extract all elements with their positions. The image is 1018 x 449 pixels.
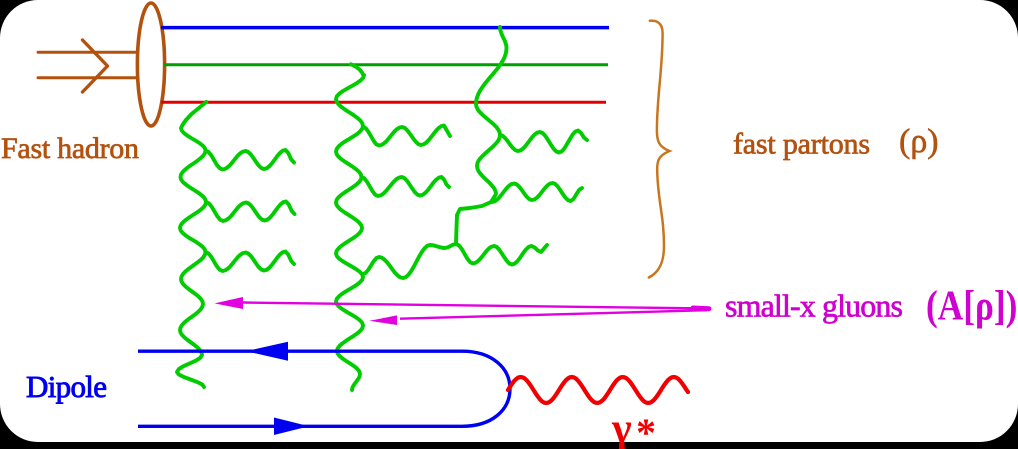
svg-text:Fast hadron: Fast hadron [1, 132, 139, 165]
hadron arrowhead chevron [83, 40, 108, 92]
dipole quark lines with right cap [138, 351, 510, 426]
incoming hadron double line [38, 52, 137, 78]
gluon branch e [362, 177, 450, 196]
gluon branch d [363, 126, 450, 146]
vertical gluon C [456, 27, 507, 243]
svg-text:small-x gluons: small-x gluons [725, 288, 903, 324]
dipole top arrowhead (left) [246, 342, 288, 361]
gluon branch g [500, 131, 587, 153]
magenta arrows tail blob [693, 306, 709, 312]
vertical gluon B [336, 64, 364, 390]
dipole bottom arrowhead (right) [274, 418, 309, 436]
blue valence quark line [161, 26, 609, 30]
green valence quark line [164, 63, 608, 66]
gluon branch a [206, 150, 295, 170]
photon wavy line [508, 377, 688, 403]
magenta arrow 1 shaft [243, 303, 709, 309]
gluon branch i [456, 244, 547, 265]
svg-text:fast partons: fast partons [733, 128, 870, 161]
svg-text:γ: γ [611, 406, 632, 449]
svg-text:Dipole: Dipole [26, 369, 107, 404]
svg-text:(A[ρ]): (A[ρ]) [926, 283, 1017, 330]
gluon branch c [206, 252, 295, 272]
red valence quark line [161, 101, 606, 104]
gluon connector f [363, 244, 456, 278]
svg-text:(ρ): (ρ) [899, 123, 939, 160]
brace for fast partons [649, 21, 670, 278]
magenta arrow 1 head [215, 297, 244, 309]
gluon branch h [492, 183, 582, 202]
hadron ellipse blob [137, 3, 164, 126]
svg-text:*: * [636, 410, 656, 449]
magenta arrow 2 shaft [400, 310, 707, 319]
gluon branch b [206, 202, 295, 222]
magenta arrow 2 head [370, 315, 398, 325]
bottom black strip [0, 442, 1018, 449]
gluon ladder: vertical gluon A [177, 27, 587, 390]
